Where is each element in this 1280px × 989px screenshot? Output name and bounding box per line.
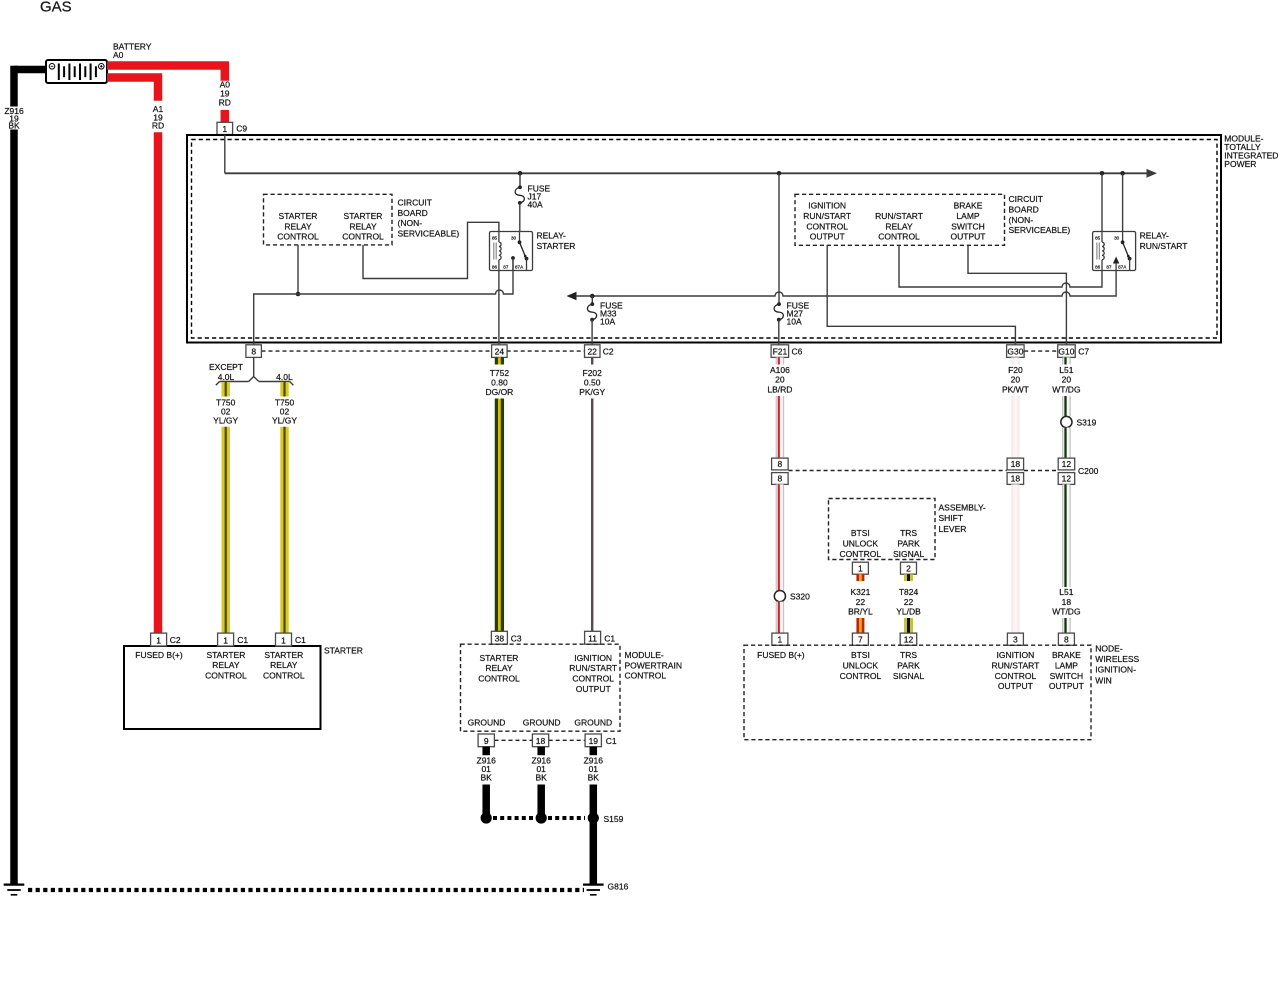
svg-text:86: 86 [1095, 265, 1101, 270]
svg-text:CONTROL: CONTROL [806, 221, 848, 231]
svg-text:87A: 87A [1118, 265, 1127, 270]
svg-text:GAS: GAS [40, 0, 72, 16]
svg-text:UNLOCK: UNLOCK [843, 660, 879, 670]
svg-text:C1: C1 [606, 736, 617, 746]
svg-text:(NON-: (NON- [1009, 215, 1034, 225]
svg-text:SIGNAL: SIGNAL [893, 671, 924, 681]
svg-text:12: 12 [1062, 474, 1072, 484]
assembly shift lever dashed box [829, 499, 936, 560]
svg-text:87: 87 [503, 265, 509, 270]
connector 2 shift lever [901, 562, 917, 574]
svg-text:CONTROL: CONTROL [342, 232, 384, 242]
svg-text:RELAY: RELAY [885, 221, 913, 231]
svg-text:CONTROL: CONTROL [625, 671, 667, 681]
svg-text:IGNITION: IGNITION [997, 650, 1035, 660]
wire K321 22 BR/YL [856, 574, 864, 581]
svg-text:3: 3 [1013, 635, 1018, 645]
node bus junction at relay run/start 85 [1100, 171, 1105, 176]
svg-text:30: 30 [1114, 236, 1120, 241]
svg-text:OUTPUT: OUTPUT [576, 684, 611, 694]
svg-text:STARTER: STARTER [264, 650, 303, 660]
svg-text:BR/YL: BR/YL [848, 607, 873, 617]
svg-text:POWER: POWER [1224, 159, 1256, 169]
svg-text:DG/OR: DG/OR [485, 387, 513, 397]
svg-text:8: 8 [778, 474, 783, 484]
svg-text:1: 1 [223, 635, 228, 645]
svg-text:SERVICEABLE): SERVICEABLE) [398, 229, 460, 239]
fuse M27 10A [778, 173, 780, 304]
wire A1 19 RD battery to starter [107, 78, 158, 101]
connector 18 C1 [532, 734, 548, 747]
svg-text:C3: C3 [511, 633, 522, 643]
svg-text:8: 8 [251, 347, 256, 357]
svg-text:LAMP: LAMP [956, 211, 979, 221]
module bottom connector row dashed links [262, 350, 493, 352]
branch except 4.0L split below connector 8 [253, 357, 255, 376]
splice dot 1 [481, 812, 492, 823]
svg-text:1: 1 [156, 635, 161, 645]
svg-text:STARTER: STARTER [206, 650, 245, 660]
connector 7 WIN BTSI [852, 633, 868, 645]
svg-text:C9: C9 [236, 124, 247, 134]
wire F20 20 PK/WT [1011, 357, 1020, 364]
svg-text:WIRELESS: WIRELESS [1095, 654, 1139, 664]
svg-text:SWITCH: SWITCH [1050, 671, 1084, 681]
ground G816 [583, 883, 604, 885]
connector C9 pin 1 [217, 122, 233, 134]
svg-text:CONTROL: CONTROL [205, 671, 247, 681]
svg-text:GROUND: GROUND [523, 717, 561, 727]
wire A106 20 LB/RD [776, 357, 785, 364]
wire F20 below C200 [1011, 484, 1020, 633]
wire relay-starter coil 86 to connector 24 [498, 271, 500, 345]
wire A106 below C200 [776, 484, 785, 590]
svg-text:FUSED B(+): FUSED B(+) [757, 650, 805, 660]
svg-text:C1: C1 [295, 635, 306, 645]
svg-text:RD: RD [219, 97, 231, 107]
svg-text:MODULE-: MODULE- [625, 650, 664, 660]
svg-text:L51: L51 [1059, 365, 1073, 375]
connector 24 C2 [492, 345, 508, 358]
svg-text:CONTROL: CONTROL [878, 232, 920, 242]
svg-text:0.80: 0.80 [491, 378, 508, 388]
svg-text:C2: C2 [603, 347, 614, 357]
svg-text:G30: G30 [1007, 347, 1023, 357]
ground (left) at bottom of Z916 [4, 883, 25, 885]
svg-text:CIRCUIT: CIRCUIT [398, 197, 432, 207]
svg-text:STARTER: STARTER [324, 646, 363, 656]
wire A0 19 RD battery to C9 [107, 66, 225, 81]
splice S159 dotted link [493, 816, 533, 820]
svg-text:RELAY: RELAY [284, 221, 312, 231]
connector 12 WIN TRS [900, 633, 917, 645]
svg-text:STARTER: STARTER [344, 211, 383, 221]
svg-text:24: 24 [495, 347, 505, 357]
connector 1 C1 starter relay 1 [218, 633, 234, 646]
svg-text:OUTPUT: OUTPUT [951, 232, 986, 242]
svg-text:20: 20 [1011, 375, 1021, 385]
connector 11 C1 [585, 631, 601, 644]
svg-text:BTSI: BTSI [851, 650, 870, 660]
svg-text:OUTPUT: OUTPUT [998, 681, 1033, 691]
svg-text:40A: 40A [528, 200, 543, 210]
svg-text:12: 12 [1062, 459, 1072, 469]
wire Z916 01 BK pin 18 [537, 747, 545, 756]
svg-text:F20: F20 [1008, 365, 1023, 375]
svg-text:YL/GY: YL/GY [213, 415, 238, 425]
svg-text:86: 86 [492, 265, 498, 270]
svg-text:TRS: TRS [900, 528, 917, 538]
svg-text:BRAKE: BRAKE [1052, 650, 1081, 660]
svg-text:STARTER: STARTER [480, 653, 519, 663]
svg-text:19: 19 [589, 736, 599, 746]
svg-text:IGNITION: IGNITION [574, 653, 612, 663]
relay-starter U1 [490, 232, 533, 271]
svg-text:OUTPUT: OUTPUT [810, 232, 845, 242]
svg-text:10A: 10A [600, 317, 615, 327]
svg-text:YL/DB: YL/DB [896, 607, 921, 617]
svg-text:C2: C2 [170, 635, 181, 645]
svg-text:RELAY-: RELAY- [1140, 231, 1169, 241]
connector 8 WIN brake lamp [1058, 633, 1074, 645]
svg-text:BOARD: BOARD [398, 208, 428, 218]
connector 38 C3 [491, 631, 507, 644]
svg-text:22: 22 [856, 597, 866, 607]
connector G10 C7 [1058, 345, 1076, 358]
svg-text:RELAY: RELAY [485, 663, 513, 673]
connector C200 pin 18 top [1007, 458, 1024, 470]
svg-text:SERVICEABLE): SERVICEABLE) [1009, 225, 1071, 235]
svg-text:11: 11 [588, 634, 597, 644]
wire relay-starter 87 horizontal to connector 8 [254, 258, 513, 345]
svg-text:S319: S319 [1077, 418, 1097, 428]
svg-text:1: 1 [858, 564, 863, 574]
svg-text:85: 85 [492, 236, 498, 241]
svg-text:CONTROL: CONTROL [995, 671, 1037, 681]
circuit board (non-serviceable) right dashed box [795, 194, 1005, 245]
wire relay run/start 30 to bus [1122, 173, 1124, 231]
svg-text:BOARD: BOARD [1009, 204, 1039, 214]
connector F21 C6 [771, 345, 789, 358]
svg-text:K321: K321 [850, 587, 870, 597]
connector C200 pin 8 top [772, 458, 789, 470]
svg-text:CONTROL: CONTROL [478, 674, 520, 684]
svg-text:RELAY: RELAY [270, 660, 298, 670]
splice dot 2 [536, 812, 547, 823]
svg-text:C7: C7 [1078, 347, 1089, 357]
wire brake lamp switch output to G10 [968, 245, 1066, 344]
svg-text:4.0L: 4.0L [218, 372, 235, 382]
svg-text:BRAKE: BRAKE [954, 201, 983, 211]
connector C200 pin 18 bottom [1007, 473, 1024, 485]
svg-text:87: 87 [1106, 265, 1112, 270]
svg-text:IGNITION-: IGNITION- [1095, 665, 1136, 675]
svg-text:PK/WT: PK/WT [1002, 385, 1029, 395]
svg-text:C200: C200 [1078, 466, 1099, 476]
svg-text:POWERTRAIN: POWERTRAIN [625, 660, 682, 670]
svg-text:30: 30 [511, 236, 517, 241]
svg-text:T752: T752 [490, 368, 510, 378]
relay run/start U2 [1093, 232, 1136, 271]
wire B+ bus from C9 across module [224, 135, 226, 174]
svg-text:RELAY: RELAY [212, 660, 240, 670]
svg-text:1: 1 [281, 635, 286, 645]
connector 1 C1 starter relay 2 [276, 633, 292, 646]
svg-text:18: 18 [1011, 474, 1021, 484]
wire T824 22 YL/DB [904, 574, 913, 581]
svg-text:WIN: WIN [1095, 675, 1112, 685]
wire T752 0.80 DG/OR [495, 357, 504, 364]
wire ignition run/start control output to G30 [827, 245, 1015, 344]
svg-text:38: 38 [495, 634, 505, 644]
svg-text:20: 20 [775, 375, 785, 385]
svg-text:G10: G10 [1058, 347, 1074, 357]
svg-text:F202: F202 [583, 368, 603, 378]
svg-text:8: 8 [1064, 635, 1069, 645]
svg-text:F21: F21 [773, 347, 788, 357]
svg-text:RUN/START: RUN/START [569, 663, 617, 673]
svg-text:ASSEMBLY-: ASSEMBLY- [939, 503, 986, 513]
svg-text:SHIFT: SHIFT [939, 513, 964, 523]
svg-text:TRS: TRS [900, 650, 917, 660]
svg-text:LEVER: LEVER [939, 524, 967, 534]
connector C200 dashed line and label [789, 470, 1007, 472]
wire starter relay control 2 to relay-starter coil [363, 222, 499, 278]
connector 1 shift lever [852, 562, 868, 574]
svg-text:UNLOCK: UNLOCK [843, 538, 879, 548]
svg-text:RUN/START: RUN/START [1140, 241, 1188, 251]
svg-text:A106: A106 [770, 365, 790, 375]
svg-text:CONTROL: CONTROL [572, 674, 614, 684]
svg-text:WT/DG: WT/DG [1052, 385, 1080, 395]
svg-text:(NON-: (NON- [398, 218, 423, 228]
svg-text:20: 20 [1062, 375, 1072, 385]
svg-text:22: 22 [587, 347, 597, 357]
svg-text:PARK: PARK [897, 538, 920, 548]
connector 3 WIN ignition run/start [1007, 633, 1023, 645]
svg-text:0.50: 0.50 [584, 378, 601, 388]
wire F202 0.50 PK/GY [591, 357, 593, 364]
svg-text:RELAY: RELAY [349, 221, 377, 231]
svg-text:CONTROL: CONTROL [277, 232, 319, 242]
svg-text:LAMP: LAMP [1055, 660, 1078, 670]
svg-text:IGNITION: IGNITION [808, 201, 846, 211]
node bus junction at fuse M27 [777, 171, 782, 176]
circuit board (non-serviceable) left dashed box [264, 194, 393, 245]
svg-text:T824: T824 [899, 587, 919, 597]
svg-text:4.0L: 4.0L [276, 372, 293, 382]
connector 22 C2 [585, 345, 601, 358]
wire run/start output 87 feed with off-page arrow [567, 292, 577, 300]
svg-text:OUTPUT: OUTPUT [1049, 681, 1084, 691]
svg-text:BK: BK [536, 773, 548, 783]
svg-text:9: 9 [484, 736, 489, 746]
svg-text:S320: S320 [790, 592, 810, 602]
svg-text:RUN/START: RUN/START [875, 211, 923, 221]
svg-text:LB/RD: LB/RD [767, 385, 792, 395]
svg-text:2: 2 [906, 564, 911, 574]
fuse J17 40A [519, 173, 521, 187]
wire L51 18 WT/DG below C200 [1062, 484, 1071, 587]
node wireless ignition WIN dashed box [744, 645, 1091, 740]
svg-text:G816: G816 [608, 882, 629, 892]
fuse M33 10A [591, 296, 593, 304]
wire T750 02 YL/GY right [280, 382, 288, 397]
svg-text:18: 18 [1062, 597, 1072, 607]
svg-text:10A: 10A [787, 317, 802, 327]
svg-text:WT/DG: WT/DG [1052, 607, 1080, 617]
splice S319 [1061, 416, 1072, 427]
connector C200 pin 12 bottom [1058, 473, 1075, 485]
module TIPM - totally integrated power box [187, 135, 1221, 343]
svg-text:SIGNAL: SIGNAL [893, 549, 924, 559]
svg-text:8: 8 [778, 459, 783, 469]
connector 1 WIN fused B+ [772, 633, 788, 645]
svg-text:NODE-: NODE- [1095, 644, 1123, 654]
wire starter relay control 1 to node [297, 245, 299, 294]
svg-text:C1: C1 [237, 635, 248, 645]
svg-text:85: 85 [1095, 236, 1101, 241]
svg-text:RELAY-: RELAY- [537, 231, 566, 241]
svg-text:18: 18 [1011, 459, 1021, 469]
wire ground bus dotted to G816 [28, 888, 584, 892]
connector 19 C1 [585, 734, 601, 747]
connector 1 C2 starter [151, 633, 167, 646]
svg-text:CONTROL: CONTROL [840, 549, 882, 559]
node bus junction at fuse J17 [518, 171, 523, 176]
svg-text:CONTROL: CONTROL [263, 671, 305, 681]
svg-text:STARTER: STARTER [279, 211, 318, 221]
wire L51 20 WT/DG [1062, 357, 1071, 364]
svg-text:S159: S159 [604, 814, 624, 824]
svg-text:RUN/START: RUN/START [803, 211, 851, 221]
svg-text:1: 1 [222, 124, 227, 134]
connector C200 pin 12 top [1058, 458, 1075, 470]
connector 9 C1 [478, 734, 494, 747]
svg-text:BK: BK [8, 121, 20, 131]
node junction starter relay control [296, 292, 301, 297]
svg-text:EXCEPT: EXCEPT [209, 362, 243, 372]
svg-text:GROUND: GROUND [468, 717, 506, 727]
svg-text:GROUND: GROUND [574, 717, 612, 727]
svg-text:RD: RD [152, 121, 164, 131]
svg-text:12: 12 [904, 635, 914, 645]
svg-text:CIRCUIT: CIRCUIT [1009, 194, 1043, 204]
svg-text:7: 7 [858, 635, 863, 645]
wire Z916 19 BK [14, 66, 47, 74]
svg-text:PK/GY: PK/GY [579, 387, 605, 397]
connector row PCM dashed links [495, 739, 533, 741]
svg-text:BK: BK [481, 773, 493, 783]
svg-text:BTSI: BTSI [851, 528, 870, 538]
svg-text:STARTER: STARTER [537, 241, 576, 251]
svg-text:C1: C1 [604, 633, 615, 643]
svg-text:C6: C6 [792, 347, 803, 357]
connector C200 pin 8 bottom [772, 473, 789, 485]
node junction fuse M33 tap [590, 294, 595, 299]
wire T750 02 YL/GY left [221, 382, 229, 397]
starter motor box [124, 646, 321, 729]
wire Z916 01 BK pin 9 [482, 747, 490, 756]
svg-text:SWITCH: SWITCH [951, 221, 985, 231]
connector G30 C7 [1007, 345, 1025, 358]
svg-text:87A: 87A [515, 265, 524, 270]
splice S320 [774, 591, 785, 602]
connector 8 (TIPM) [246, 345, 262, 358]
splice dot S159 [588, 812, 599, 823]
svg-text:L51: L51 [1059, 587, 1073, 597]
svg-text:CONTROL: CONTROL [840, 671, 882, 681]
svg-text:PARK: PARK [897, 660, 920, 670]
wire relay run/start 85 coil to bus [1101, 173, 1103, 231]
svg-text:A0: A0 [113, 50, 124, 60]
battery A0 [46, 60, 107, 83]
wire Z916 01 BK pin 19 [590, 747, 598, 756]
svg-text:YL/GY: YL/GY [272, 415, 297, 425]
module powertrain control dashed box [461, 644, 621, 731]
wire run/start relay control to relay run/start 86 [899, 245, 1102, 287]
svg-text:RUN/START: RUN/START [991, 660, 1039, 670]
svg-text:1: 1 [778, 635, 783, 645]
svg-text:22: 22 [904, 597, 914, 607]
svg-text:FUSED B(+): FUSED B(+) [135, 650, 183, 660]
svg-text:BK: BK [588, 773, 600, 783]
svg-text:18: 18 [536, 736, 546, 746]
node bus junction at relay run/start 30 [1120, 171, 1125, 176]
